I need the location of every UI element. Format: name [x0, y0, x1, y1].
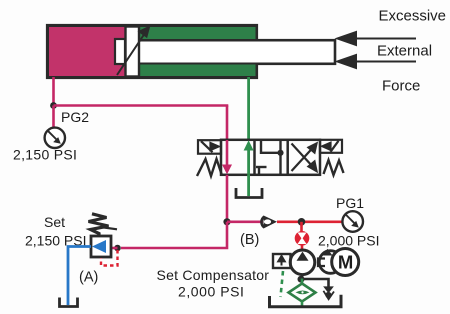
- external force arrow lower: [338, 55, 417, 68]
- suction strainer (green diamond): [289, 284, 316, 302]
- svg-text:2,000 PSI: 2,000 PSI: [178, 284, 244, 300]
- node: suction junction: [298, 276, 305, 283]
- valve V1 left position: A-flow arrow down (crimson): [222, 140, 232, 174]
- valve V1 right position: crossed arrows: [292, 144, 317, 172]
- wire: junction to relief valve box: [111, 247, 118, 250]
- wire: compensator to pump inlet (red): [301, 246, 304, 252]
- electric motor M: [332, 249, 359, 276]
- svg-text:Set Compensator: Set Compensator: [157, 267, 270, 283]
- cylinder C1 barrel: [48, 26, 257, 78]
- svg-text:2,150 PSI: 2,150 PSI: [13, 147, 77, 163]
- pump P1: [290, 250, 315, 275]
- svg-text:2,000 PSI: 2,000 PSI: [318, 233, 380, 249]
- return check valve into tank: [323, 287, 334, 299]
- wire: rod-end line from cylinder down to valve (green): [247, 77, 250, 141]
- pressure gauge PG1: [342, 211, 363, 232]
- wire: check valve to pump line (red): [277, 221, 342, 224]
- cylinder cap-side fluid (crimson): [49, 27, 127, 76]
- wire: PG2 gauge stem: [52, 106, 55, 129]
- piston rod: [126, 40, 335, 64]
- cushion plug: [115, 39, 125, 64]
- valve V1 body (4/3 directional control valve): [221, 140, 320, 175]
- spring left: [197, 159, 222, 176]
- wire: junction down to compensator (red): [300, 222, 303, 232]
- wire: return line to tank check (black): [302, 279, 329, 289]
- external force arrow upper: [338, 32, 417, 45]
- solenoid right: [320, 140, 342, 153]
- wire: valve port down to node B (crimson): [226, 175, 229, 222]
- spring right: [324, 160, 344, 175]
- tank symbol (relief drain): [60, 298, 78, 307]
- node: pump outlet junction: [298, 218, 306, 226]
- node: cap line junction: [50, 102, 57, 109]
- second pump circle (behind motor): [319, 249, 342, 273]
- wire: pressure line into valve (vertical): [226, 106, 229, 142]
- pump compensator box with arrow: [273, 254, 291, 268]
- wire: node B to check valve: [227, 221, 263, 224]
- wire: pump suction stub (black): [302, 275, 303, 280]
- wire: node B down-left to relief valve (crimson): [121, 222, 227, 248]
- tank symbol under valve: [236, 188, 262, 198]
- wire: valve tank port to tank (green): [247, 175, 250, 196]
- adjustable cushion arrow through piston: [117, 27, 149, 75]
- svg-text:(A): (A): [79, 270, 98, 286]
- svg-text:Set: Set: [44, 214, 65, 230]
- node: center position junction: [277, 150, 283, 156]
- node B junction: [223, 218, 230, 225]
- shaft coupling bracket: [318, 259, 325, 267]
- svg-text:Excessive: Excessive: [379, 8, 447, 25]
- wire: strainer to tank (green): [301, 302, 304, 307]
- wire: relief valve to tank (blue): [68, 247, 91, 306]
- wire: pressure line to valve port A (horizontal): [54, 104, 229, 107]
- solenoid left: [198, 140, 221, 154]
- wire: suction to strainer (green): [301, 279, 304, 285]
- node: relief valve inlet junction: [114, 245, 121, 252]
- case drain (green dashed): [281, 271, 284, 297]
- pressure gauge PG2: [45, 128, 65, 148]
- pressure compensator valve (red): [295, 231, 310, 246]
- check valve CV1: [261, 216, 277, 229]
- relief valve pilot line (red dashed): [101, 250, 118, 266]
- valve V1 center position passages: [256, 140, 281, 175]
- wire: cap-end pressure line down from cylinder: [52, 77, 55, 106]
- svg-text:(B): (B): [240, 232, 259, 248]
- piston: [126, 27, 140, 77]
- svg-text:PG2: PG2: [61, 109, 89, 125]
- cylinder rod-side fluid bottom (green): [140, 65, 256, 77]
- relief valve RV1 body: [91, 236, 111, 257]
- main tank: [270, 295, 342, 307]
- svg-text:Force: Force: [382, 77, 420, 94]
- relief valve spring: [89, 214, 118, 237]
- svg-text:PG1: PG1: [336, 195, 364, 211]
- valve V1 left position: B-flow arrow up (green): [244, 140, 254, 175]
- cylinder rod-side fluid top (green): [140, 27, 256, 39]
- svg-text:M: M: [338, 251, 353, 272]
- svg-text:External: External: [377, 43, 432, 60]
